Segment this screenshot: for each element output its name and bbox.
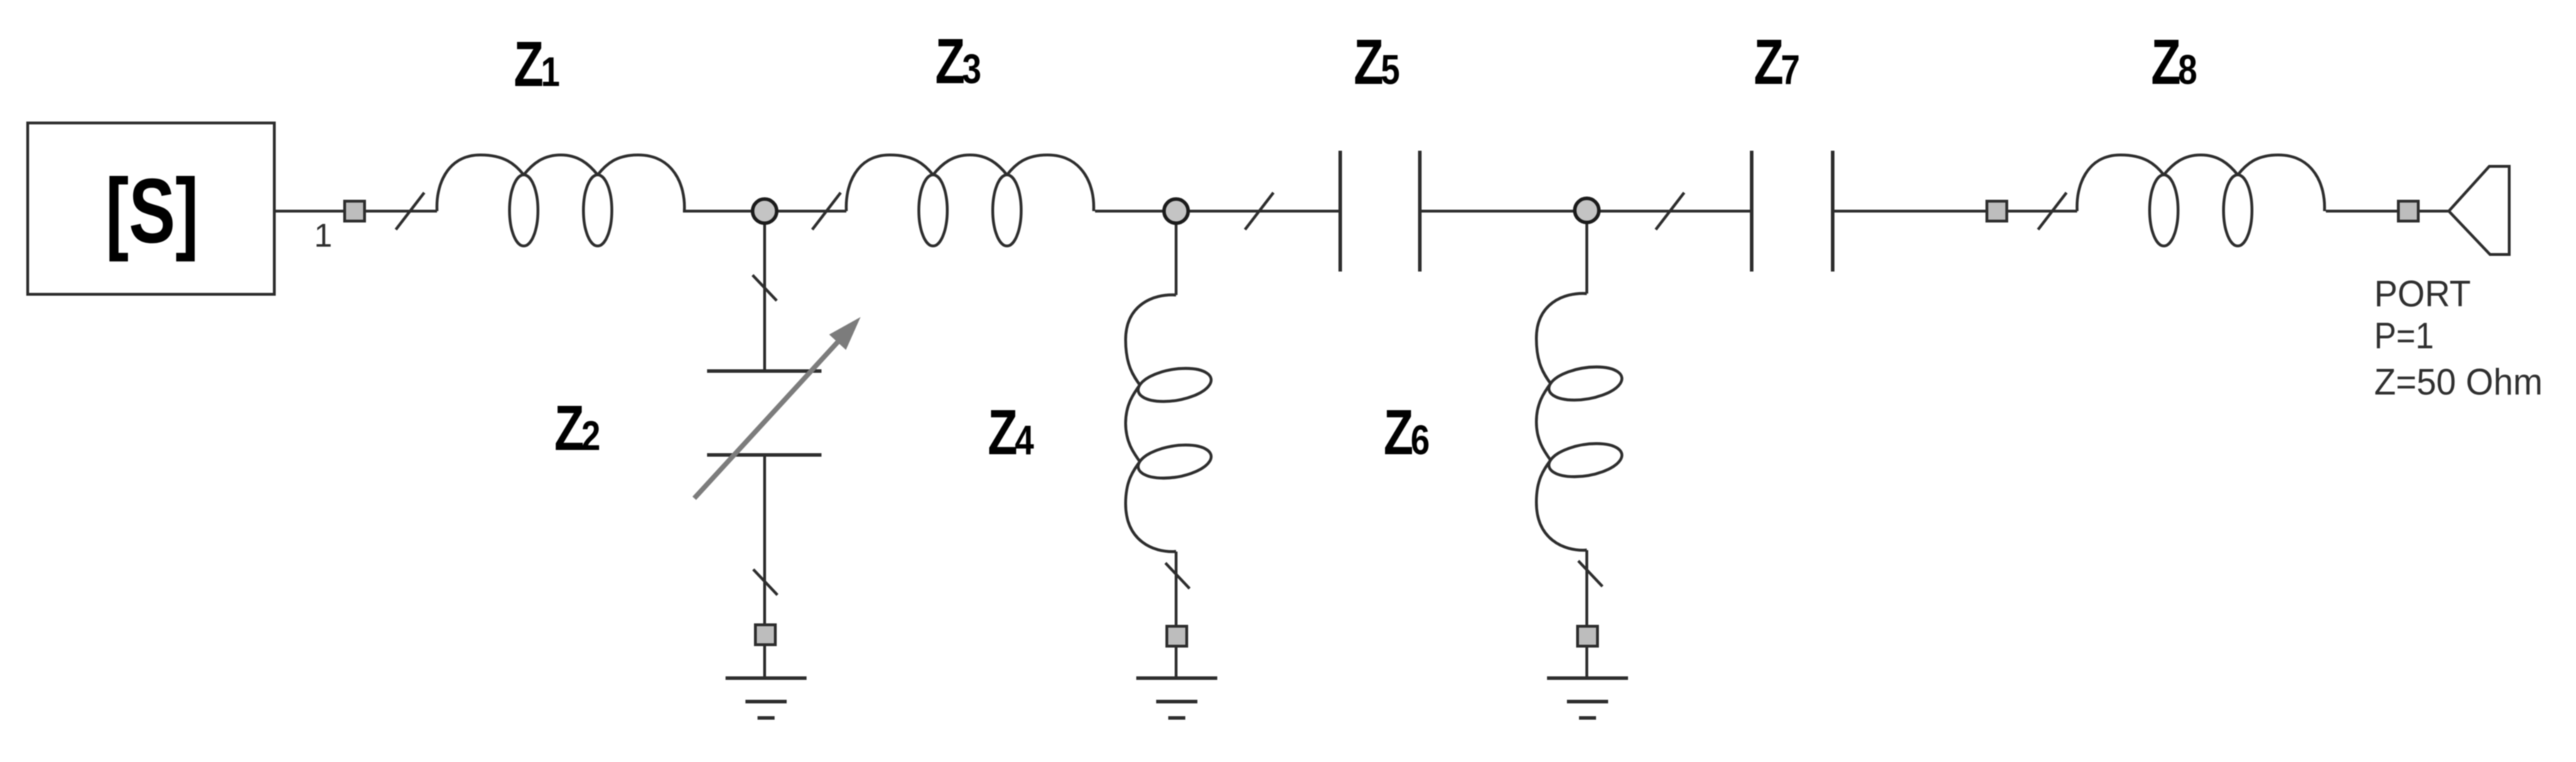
- svg-text:2: 2: [581, 413, 600, 459]
- svg-text:[S]: [S]: [106, 160, 199, 262]
- svg-text:Z: Z: [1754, 27, 1784, 98]
- svg-text:Z: Z: [988, 397, 1018, 468]
- svg-text:Z: Z: [935, 26, 965, 97]
- svg-text:Z: Z: [1354, 27, 1384, 98]
- svg-text:Z: Z: [514, 29, 544, 100]
- svg-text:6: 6: [1411, 417, 1430, 463]
- svg-text:3: 3: [962, 46, 981, 92]
- svg-text:Z: Z: [1384, 397, 1413, 468]
- svg-text:1: 1: [314, 217, 333, 254]
- svg-text:Z: Z: [554, 393, 584, 464]
- svg-text:PORT: PORT: [2374, 274, 2471, 315]
- svg-text:Z: Z: [2151, 27, 2181, 98]
- svg-text:1: 1: [541, 49, 560, 95]
- svg-text:8: 8: [2178, 47, 2197, 93]
- svg-text:5: 5: [1381, 47, 1400, 93]
- svg-text:7: 7: [1781, 47, 1800, 93]
- svg-text:Z=50 Ohm: Z=50 Ohm: [2374, 362, 2543, 403]
- svg-text:P=1: P=1: [2374, 316, 2434, 357]
- svg-text:4: 4: [1015, 417, 1034, 463]
